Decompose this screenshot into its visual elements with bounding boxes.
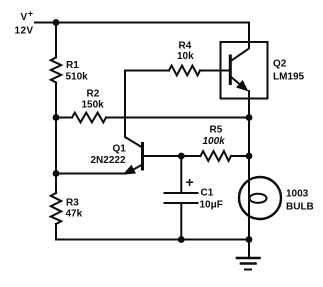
svg-text:LM195: LM195 bbox=[273, 72, 305, 83]
svg-text:1003: 1003 bbox=[286, 189, 309, 200]
svg-text:12V: 12V bbox=[15, 26, 34, 37]
svg-text:510k: 510k bbox=[66, 72, 89, 83]
svg-text:R5: R5 bbox=[210, 125, 223, 136]
svg-text:+: + bbox=[28, 9, 33, 19]
svg-text:2N2222: 2N2222 bbox=[91, 155, 126, 166]
svg-text:R2: R2 bbox=[87, 89, 100, 100]
svg-text:10μF: 10μF bbox=[200, 200, 223, 211]
svg-text:10k: 10k bbox=[177, 51, 194, 62]
svg-text:BULB: BULB bbox=[286, 202, 314, 213]
svg-text:V: V bbox=[21, 12, 28, 23]
svg-text:Q2: Q2 bbox=[273, 59, 287, 70]
svg-text:R3: R3 bbox=[66, 198, 79, 209]
svg-text:+: + bbox=[186, 174, 194, 190]
svg-text:47k: 47k bbox=[66, 209, 83, 220]
svg-text:R4: R4 bbox=[179, 41, 192, 52]
svg-text:C1: C1 bbox=[201, 188, 214, 199]
svg-text:Q1: Q1 bbox=[113, 144, 127, 155]
svg-text:100k: 100k bbox=[203, 136, 226, 147]
svg-text:R1: R1 bbox=[66, 60, 79, 71]
svg-text:150k: 150k bbox=[82, 100, 105, 111]
